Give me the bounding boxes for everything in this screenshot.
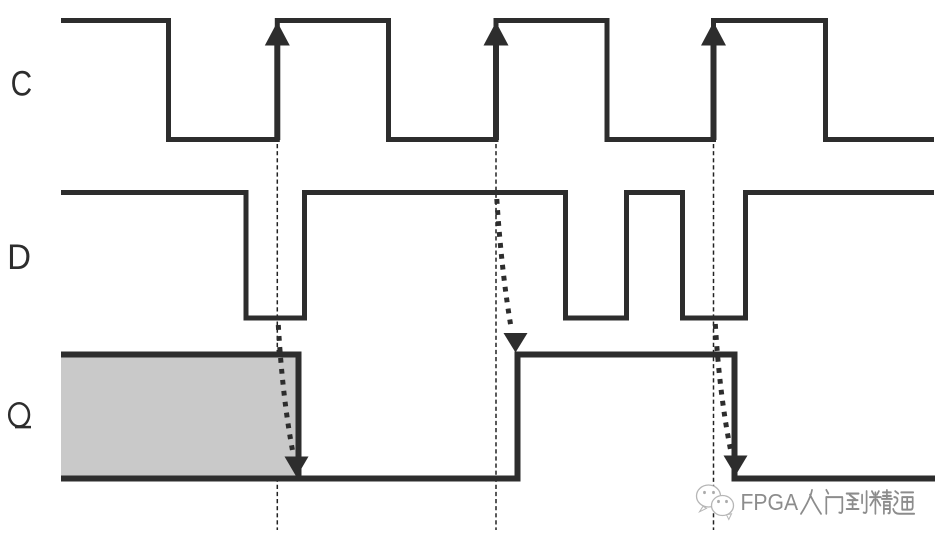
svg-text:D: D [7,238,31,277]
svg-text:FPGA: FPGA [741,489,799,515]
svg-text:C: C [11,64,32,103]
